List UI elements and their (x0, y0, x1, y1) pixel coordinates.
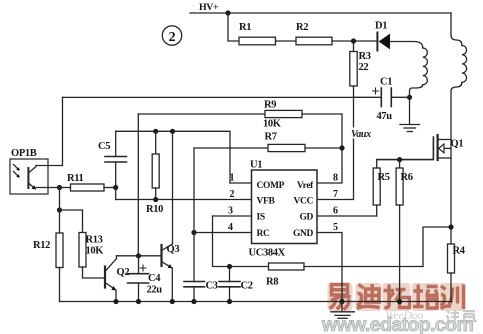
resistor R8 (266, 263, 423, 288)
wire HV+ top rail (190, 12, 451, 14)
svg-text:5: 5 (333, 222, 338, 233)
svg-text:2: 2 (230, 189, 235, 200)
node junction rail Q2 (113, 299, 118, 304)
transformer aux winding L1 (423, 48, 428, 85)
transistor Q3 (139, 244, 180, 302)
resistor R12 (33, 210, 63, 302)
capacitor C5 (98, 131, 127, 187)
svg-text:22: 22 (359, 62, 369, 73)
svg-text:C1: C1 (380, 77, 392, 88)
pin 6 stub (317, 215, 377, 217)
svg-text:R9: R9 (264, 100, 276, 111)
wire VFB line pin2 (116, 199, 252, 201)
capacitor C3 (184, 281, 218, 302)
svg-text:2: 2 (169, 30, 176, 45)
wire OP1B emitter node down (59, 188, 61, 211)
ground under C1 (400, 97, 420, 131)
wire IS pin3 down and right to R8 (213, 216, 269, 267)
wire primary winding bottom to Q1 drain (451, 82, 462, 139)
node junction rail R6 (397, 299, 402, 304)
node junction R6 top (397, 157, 402, 162)
node junction rail Q3 (170, 299, 175, 304)
wire OP1B collector riser (36, 97, 63, 165)
svg-text:HV+: HV+ (199, 2, 219, 13)
watermark (321, 283, 477, 334)
node junction R10 bottom / VFB (153, 197, 158, 202)
resistor R2 (296, 37, 332, 45)
wire aux winding bottom to node (410, 85, 423, 98)
svg-text:GD: GD (299, 213, 313, 223)
node junction Q3 collector top (170, 129, 175, 134)
resistor R13 10K (60, 210, 106, 278)
svg-text:4: 4 (228, 222, 233, 233)
node Vaux long wire (63, 96, 354, 98)
watermark char xun (440, 283, 466, 311)
svg-text:R12: R12 (33, 240, 50, 251)
diode D1 (375, 21, 390, 51)
svg-text:R4: R4 (453, 246, 466, 257)
resistor R9 10K (138, 100, 342, 130)
svg-text:R8: R8 (266, 277, 278, 288)
watermark char tuo (383, 283, 411, 311)
node junction OP1B emitter / R11 / R12R13 (57, 185, 62, 190)
svg-text:D1: D1 (375, 21, 387, 32)
node junction R11/C5/VFB (113, 185, 118, 190)
wire right side down + primary winding top (451, 13, 462, 46)
svg-text:U1: U1 (250, 160, 262, 171)
watermark char di (356, 283, 382, 311)
svg-text:COMP: COMP (257, 181, 285, 191)
wire D1 to transformer aux winding (390, 42, 423, 49)
wire HV+ down to R1 (228, 13, 239, 41)
svg-text:R11: R11 (67, 173, 84, 184)
op-amp U1 UC384X body (249, 160, 318, 259)
transistor Q2 (105, 256, 139, 302)
capacitor C2 (219, 267, 253, 302)
node junction rail C3 (191, 299, 196, 304)
resistor R6 (396, 160, 413, 302)
svg-text:OP1B: OP1B (11, 148, 37, 159)
node junction Q2 collector / Q3 base / C4 (136, 253, 141, 258)
svg-text:R10: R10 (146, 204, 163, 215)
optocoupler OP1B (10, 148, 60, 194)
wire R2 to D1 (332, 40, 377, 42)
svg-text:UC384X: UC384X (249, 248, 286, 259)
node junction R2/R3/D1 (351, 38, 356, 43)
transformer primary winding (462, 46, 467, 83)
watermark char pei (412, 283, 439, 311)
wire R1 to R2 (276, 40, 297, 42)
svg-text:R7: R7 (265, 132, 277, 143)
svg-text:Vaux: Vaux (351, 129, 371, 140)
svg-text:RC: RC (257, 229, 271, 239)
svg-text:6: 6 (333, 206, 338, 217)
resistor R7 (194, 132, 342, 152)
svg-text:8: 8 (333, 173, 338, 184)
resistor R10 (146, 131, 163, 215)
node junction C1/winding/ground (407, 95, 412, 100)
svg-text:Vref: Vref (297, 181, 314, 191)
wire Vref vertical pin8 (317, 114, 342, 183)
resistor R1 (239, 37, 276, 45)
wire R9 left leg down to Q2/Q3 base node (137, 114, 139, 256)
svg-text:10K: 10K (86, 246, 105, 257)
node junction sense / R4 top (448, 224, 453, 229)
svg-text:C2: C2 (241, 281, 253, 292)
pin 5 stub (317, 233, 342, 302)
svg-text:R2: R2 (296, 22, 308, 33)
resistor R4 (448, 244, 466, 302)
node junction pin4 / RC (191, 230, 196, 235)
svg-text:C4: C4 (148, 273, 161, 284)
wire Vaux vertical to VCC pin7 (317, 97, 354, 199)
node junction R10 top (153, 129, 158, 134)
wire Q3 collector (172, 131, 174, 243)
svg-text:Q2: Q2 (117, 267, 130, 278)
resistor R5 (373, 160, 390, 216)
wire Q1 source down to sense node (450, 140, 452, 245)
node junction R7/Vref (339, 145, 344, 150)
svg-text:GND: GND (293, 229, 314, 239)
node junction rail C2 (227, 299, 232, 304)
svg-text:R5: R5 (378, 172, 390, 183)
wire R8 right up to sense node (423, 227, 450, 267)
svg-text:IS: IS (257, 213, 265, 223)
svg-text:47u: 47u (377, 111, 393, 122)
node junction rail C4 (136, 299, 141, 304)
capacitor C4 22u (128, 256, 163, 302)
resistor R3 22 (350, 41, 371, 97)
svg-text:10K: 10K (263, 119, 282, 130)
svg-text:R3: R3 (359, 51, 371, 62)
wire R7 left leg down to RC / C3 (193, 148, 195, 282)
svg-text:22u: 22u (147, 285, 163, 296)
transistor Q1 MOSFET (438, 135, 464, 160)
svg-text:1: 1 (230, 173, 235, 184)
resistor R11 (60, 173, 116, 191)
svg-text:R6: R6 (401, 172, 413, 183)
svg-text:R13: R13 (86, 235, 103, 246)
svg-text:7: 7 (333, 189, 338, 200)
svg-text:VCC: VCC (293, 197, 313, 207)
wire COMP line (116, 131, 230, 183)
pin 3 stub (213, 215, 252, 217)
svg-text:www.edatop.com: www.edatop.com (321, 314, 473, 334)
svg-text:C3: C3 (206, 281, 218, 292)
watermark blocks nanku (446, 310, 477, 321)
node junction HV+/R1 (225, 10, 230, 15)
svg-text:C5: C5 (98, 141, 110, 152)
watermark char yi (328, 283, 353, 311)
svg-text:Q1: Q1 (451, 139, 464, 150)
svg-text:Q3: Q3 (167, 244, 180, 255)
wire bottom ground rail (60, 301, 453, 303)
wire C5/R11 to VFB line (115, 188, 117, 200)
pin 1 stub (230, 182, 252, 184)
wire gate line (377, 137, 434, 160)
capacitor C1 47u (354, 77, 410, 123)
svg-text:VFB: VFB (257, 197, 276, 207)
svg-text:3: 3 (228, 206, 233, 217)
svg-text:R1: R1 (239, 22, 251, 33)
node junction rail GND pin5 (339, 299, 344, 304)
node junction C2 top (227, 264, 232, 269)
pin 4 stub (194, 232, 252, 234)
schematic sheet number 2 (162, 26, 181, 45)
node junction R12/R13 (57, 207, 62, 212)
ground symbol main (331, 302, 355, 319)
